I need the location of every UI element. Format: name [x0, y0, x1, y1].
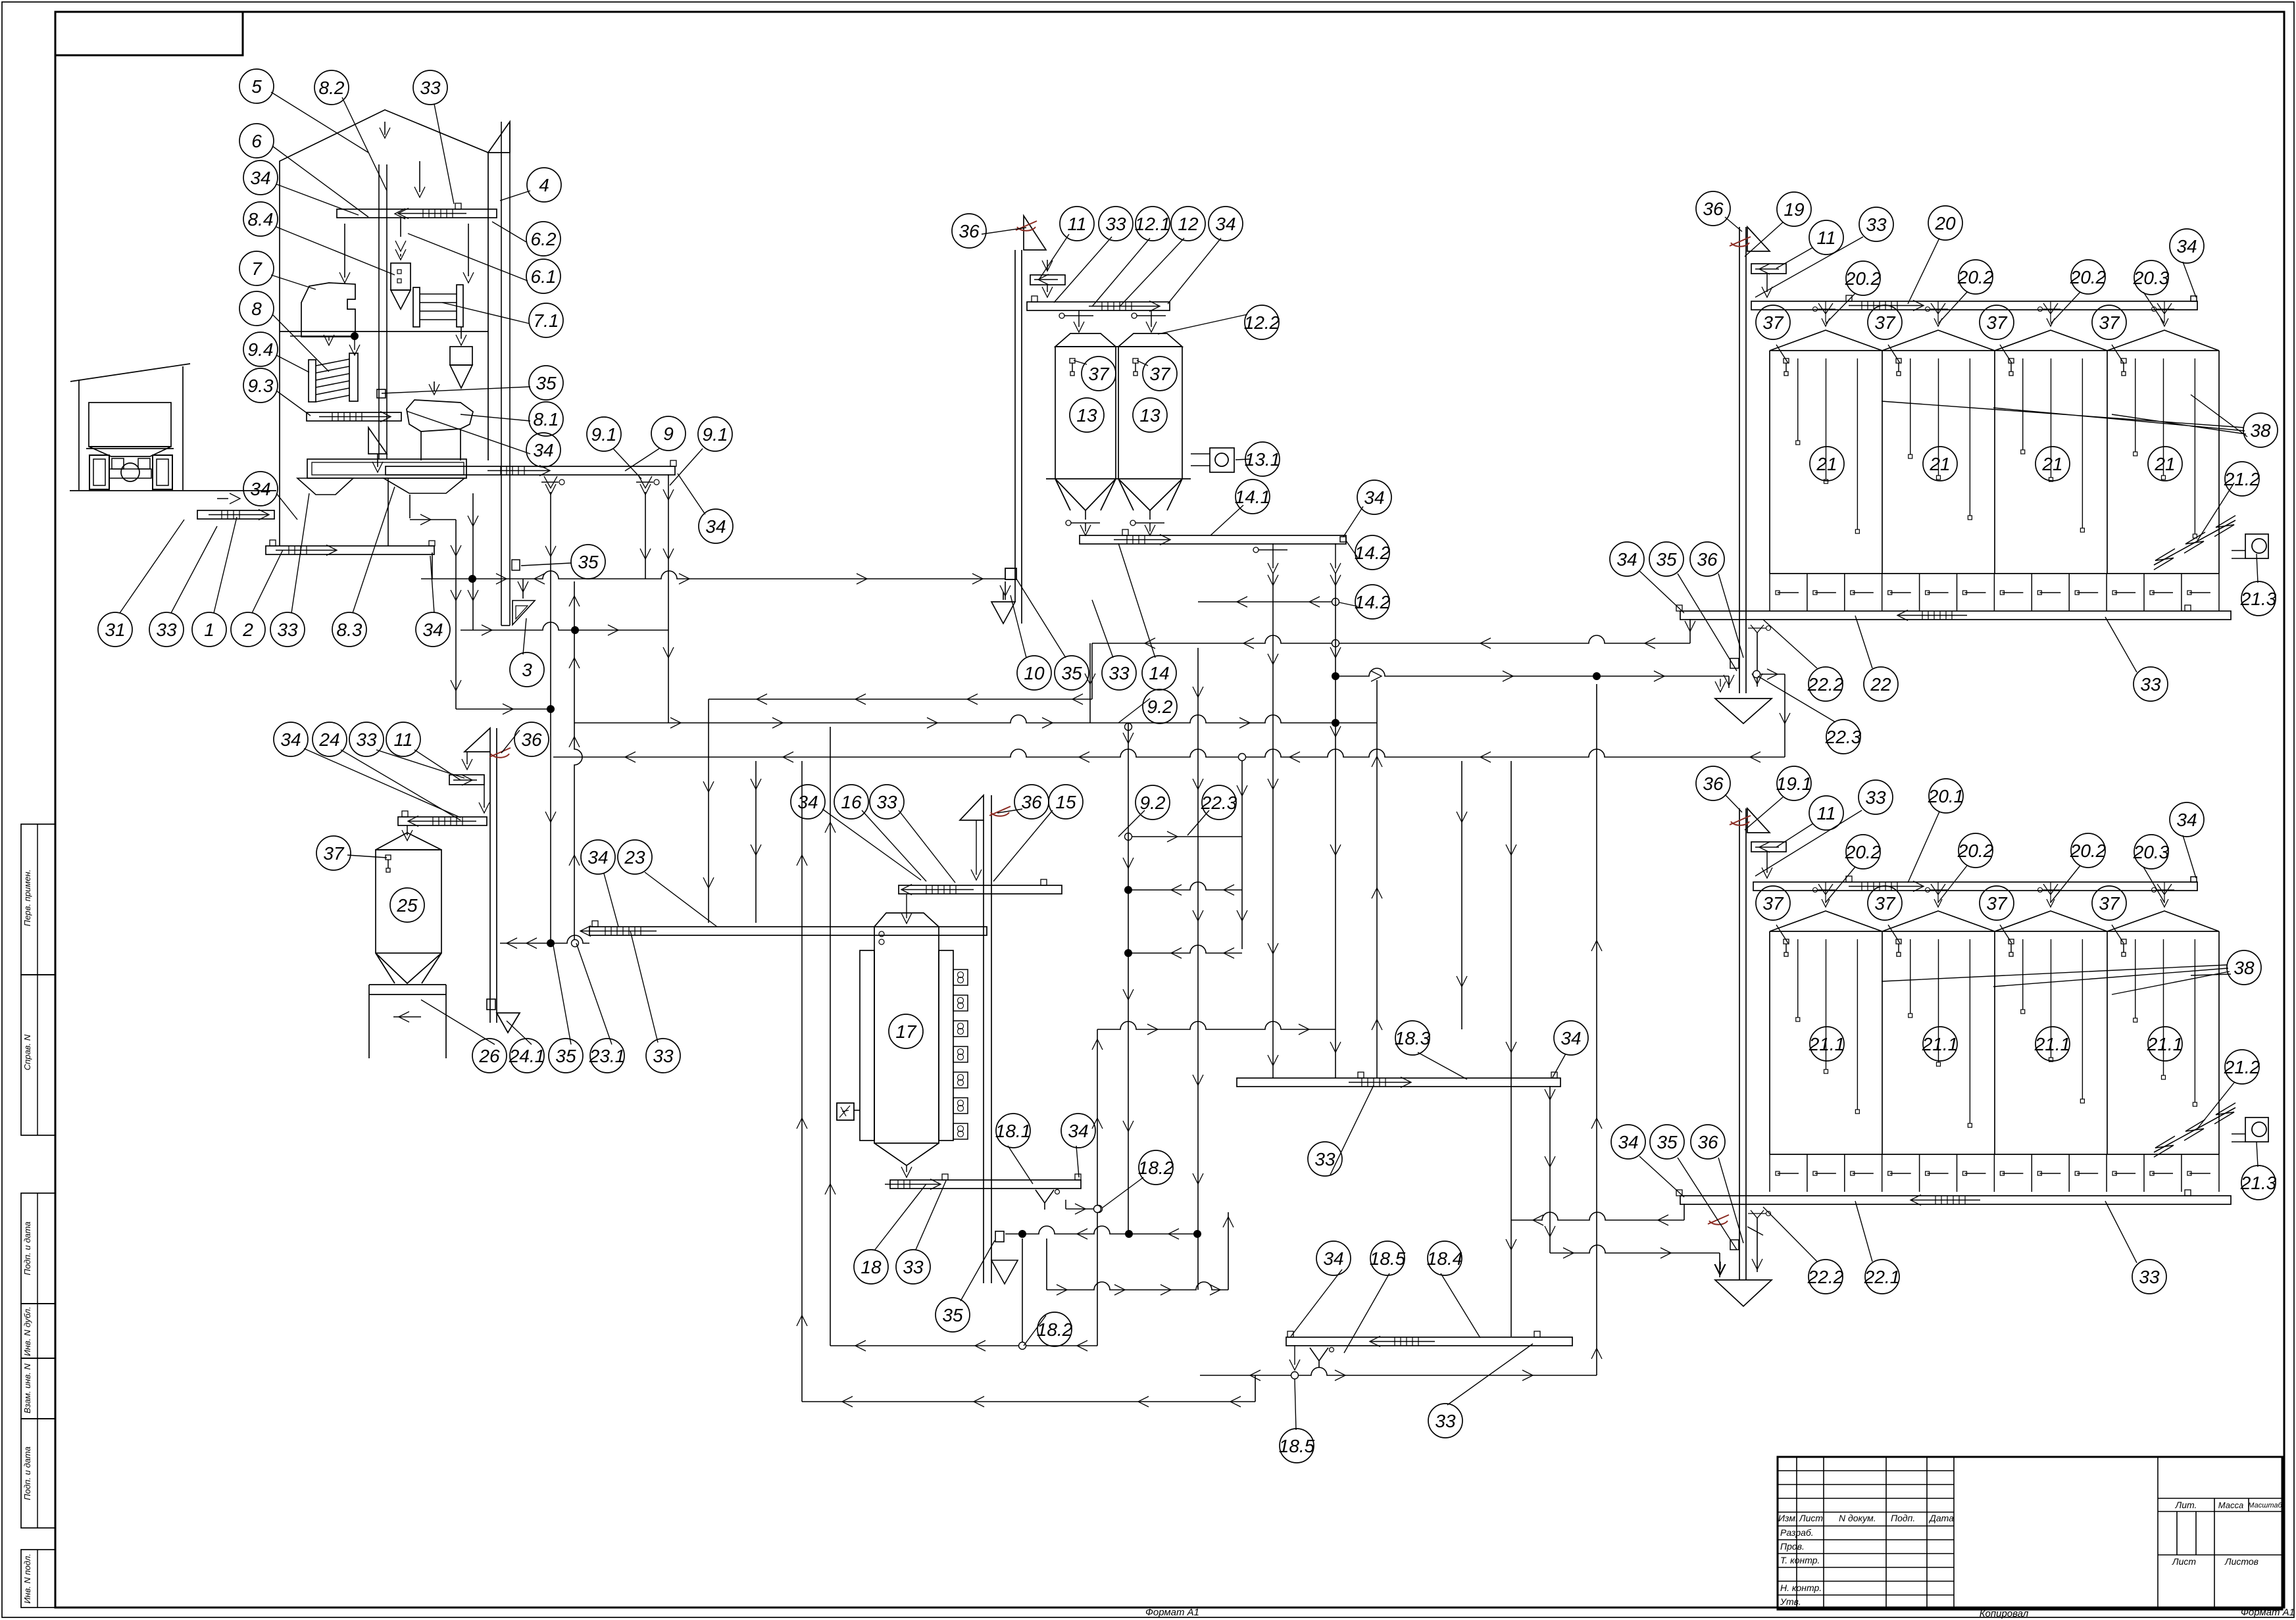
node balloon 36	[1696, 766, 1730, 800]
wire	[1596, 684, 1597, 1375]
svg-text:Утв.: Утв.	[1780, 1596, 1801, 1607]
building head flag	[488, 122, 510, 153]
svg-text:21.3: 21.3	[2240, 589, 2277, 609]
node balloon 33	[1859, 780, 1893, 814]
silo 13 left roof	[1055, 333, 1116, 347]
svg-text:33: 33	[1865, 787, 1886, 808]
svg-text:33: 33	[903, 1257, 924, 1277]
valve under conveyor 18.4	[1310, 1348, 1328, 1367]
leader lines 18 group	[875, 1184, 926, 1250]
flap valve mark	[489, 748, 511, 757]
spouts conveyor 20.1 to bins	[1818, 889, 1835, 891]
node balloon 21	[2148, 447, 2182, 481]
node balloon 9.1	[698, 417, 732, 451]
title block frame	[1778, 1457, 2282, 1609]
svg-text:20.2: 20.2	[1845, 842, 1882, 862]
elevator 19.1 discharge funnel	[1715, 1280, 1772, 1306]
truck shed roof	[70, 364, 190, 381]
node balloon 37	[1980, 305, 2014, 339]
svg-text:21: 21	[1929, 454, 1950, 474]
warehouse bin walls	[1769, 931, 1770, 1154]
node balloon 7	[239, 251, 274, 285]
wire	[830, 727, 831, 1346]
wire	[668, 474, 669, 723]
wire	[1757, 633, 1758, 687]
svg-text:Листов: Листов	[2224, 1556, 2259, 1567]
wire	[802, 1401, 1255, 1402]
level sensor	[1133, 358, 1138, 363]
wire from junction to drop	[1760, 674, 1785, 675]
node balloon 37	[1756, 886, 1790, 920]
svg-text:22.2: 22.2	[1807, 674, 1844, 695]
svg-text:Подп. и дата: Подп. и дата	[22, 1446, 32, 1500]
svg-text:13: 13	[1139, 405, 1160, 426]
wire	[1132, 836, 1242, 837]
dryer motor box	[837, 1103, 854, 1120]
node balloon 18.3	[1395, 1021, 1430, 1055]
svg-text:9.3: 9.3	[248, 376, 274, 396]
svg-text:20.2: 20.2	[2070, 267, 2107, 287]
silo 25 stand	[368, 985, 370, 1058]
wire	[1511, 1212, 1684, 1220]
elevator 19.1 head flag	[1747, 808, 1770, 833]
svg-text:34: 34	[1364, 487, 1384, 508]
wire	[1241, 761, 1243, 949]
wire	[1089, 643, 1091, 723]
svg-text:Перв. примен.: Перв. примен.	[22, 870, 32, 926]
node balloon 35	[1055, 656, 1089, 690]
node balloon 23	[618, 840, 652, 874]
conveyor belt	[307, 412, 401, 421]
node balloon 22.1	[1865, 1260, 1899, 1294]
node balloon 14.2	[1355, 585, 1389, 619]
node balloon 21.1	[2035, 1027, 2070, 1061]
node balloon 37	[1756, 305, 1790, 339]
node balloon 8.4	[243, 202, 278, 236]
node balloon 20.2	[1959, 260, 1993, 294]
truck wheel right	[153, 455, 172, 489]
elevator 10 head flag	[1024, 216, 1046, 250]
discharge gate row	[1769, 574, 1770, 611]
silo 13 right roof	[1118, 333, 1182, 347]
svg-text:3: 3	[522, 660, 532, 680]
wire	[1200, 1367, 1597, 1375]
dryer 17 side panel left	[860, 950, 874, 1141]
wire	[574, 581, 582, 939]
magnet 11 box upper warehouse	[1751, 264, 1786, 274]
node balloon 35	[1649, 542, 1684, 576]
node balloon 33	[349, 722, 384, 756]
node balloon 4	[527, 168, 561, 202]
silo discharge valves	[1085, 510, 1086, 520]
node balloon 9.2	[1143, 689, 1177, 724]
svg-text:14.2: 14.2	[1355, 543, 1391, 563]
svg-text:7.1: 7.1	[534, 310, 559, 331]
svg-text:Справ. N: Справ. N	[22, 1034, 32, 1070]
probe leader lines to balloon 38 upper	[1882, 395, 2247, 437]
conveyor belt	[1751, 301, 2197, 310]
node balloon 21.1	[1923, 1027, 1957, 1061]
node balloon 12.2	[1245, 305, 1279, 339]
elevator 23 discharge	[497, 1013, 520, 1033]
svg-text:Дата: Дата	[1928, 1513, 1954, 1523]
svg-text:13: 13	[1076, 405, 1097, 426]
node balloon 33	[413, 70, 447, 105]
node balloon 20.3	[2134, 260, 2168, 295]
svg-text:Масса: Масса	[2218, 1500, 2243, 1510]
conveyor belt	[266, 546, 434, 554]
node balloon 21.2	[2225, 1050, 2259, 1084]
node balloon 11	[1060, 207, 1094, 241]
silo 25 cone top	[376, 833, 441, 850]
title block columns	[1796, 1457, 1797, 1609]
svg-text:34: 34	[1616, 549, 1637, 570]
node balloon 33	[270, 612, 305, 647]
building right elevator duct	[501, 122, 502, 626]
node balloon 35	[549, 1039, 583, 1073]
node balloon 34	[1610, 542, 1644, 576]
svg-text:33: 33	[1866, 214, 1887, 235]
node balloon 20.1	[1929, 779, 1963, 813]
level sensor	[1896, 358, 1901, 363]
discharge spouts under conveyor 9	[541, 481, 559, 483]
node balloon 34	[791, 785, 825, 819]
leader lines silos 13 group	[982, 228, 1026, 234]
wire	[500, 935, 589, 943]
wire	[1097, 1213, 1098, 1346]
svg-text:35: 35	[555, 1046, 576, 1066]
svg-text:8.1: 8.1	[534, 409, 559, 430]
node balloon 34	[699, 509, 733, 543]
svg-text:33: 33	[1314, 1149, 1335, 1169]
svg-text:Формат А1: Формат А1	[2241, 1607, 2295, 1618]
warehouse roof zigzag	[1770, 330, 2219, 351]
svg-text:34: 34	[2176, 236, 2197, 257]
node balloon 37	[1980, 886, 2014, 920]
node balloon 22.3	[1826, 720, 1860, 754]
node balloon 14.1	[1235, 479, 1270, 514]
wire	[1549, 1086, 1551, 1253]
silo 25 feed	[402, 830, 412, 841]
margin box Perv. primen.	[21, 824, 55, 975]
node balloon 21	[1923, 447, 1957, 481]
svg-text:23.1: 23.1	[589, 1046, 626, 1066]
conveyor belt	[197, 510, 274, 519]
svg-text:33: 33	[1109, 663, 1130, 683]
svg-text:Разраб.: Разраб.	[1780, 1527, 1814, 1538]
truck hopper	[89, 447, 171, 456]
silo feed spouts from conveyor 12	[1074, 322, 1084, 332]
node balloon 36	[1696, 191, 1730, 226]
wire	[461, 622, 668, 630]
node balloon 18.5	[1370, 1241, 1405, 1275]
node balloon 12.1	[1136, 207, 1170, 241]
conveyor belt	[1680, 1196, 2231, 1204]
node balloon 12	[1171, 207, 1205, 241]
node balloon 20	[1928, 206, 1962, 240]
wire	[1510, 761, 1512, 1337]
spout under conveyor 22	[1751, 625, 1764, 633]
svg-text:37: 37	[1986, 312, 2008, 333]
node balloon 31	[98, 612, 132, 647]
conveyor belt	[1680, 611, 2231, 620]
node balloon 24	[312, 722, 347, 756]
junction near elevator 19	[1753, 671, 1760, 678]
valve marks near 19.1 boot	[1747, 1227, 1763, 1235]
elevator 19.1 leg	[1739, 808, 1740, 1280]
svg-text:21.2: 21.2	[2224, 469, 2260, 489]
leader lines bottom row building	[120, 520, 184, 613]
node balloon 37	[1868, 886, 1902, 920]
svg-text:36: 36	[1703, 773, 1724, 794]
screw conveyor symbol	[2154, 520, 2235, 565]
conveyor belt	[398, 817, 487, 825]
svg-text:21.2: 21.2	[2224, 1057, 2260, 1077]
node balloon 22.3	[1202, 785, 1236, 820]
svg-text:24.1: 24.1	[509, 1046, 545, 1066]
svg-text:33: 33	[1435, 1411, 1456, 1431]
node balloon 20.2	[1959, 833, 1993, 868]
node balloon 14.2	[1355, 535, 1389, 570]
node balloon 16	[834, 785, 868, 819]
node balloon 20.2	[2071, 833, 2105, 868]
svg-text:33: 33	[356, 729, 377, 750]
wire	[1784, 674, 1785, 757]
silo hopper right	[1118, 479, 1182, 510]
node balloon 10	[1017, 656, 1051, 690]
node balloon 15	[1049, 785, 1083, 819]
node balloon 21.3	[2241, 1166, 2276, 1200]
elevator 19 discharge funnel	[1715, 699, 1772, 724]
node balloon 6	[239, 124, 274, 158]
wire	[1022, 1239, 1023, 1342]
downpipe from conveyor 6.2	[400, 218, 401, 237]
svg-text:6.2: 6.2	[531, 229, 557, 249]
svg-text:34: 34	[705, 516, 726, 537]
node balloon 34	[2170, 229, 2204, 263]
level sensor	[2121, 358, 2126, 363]
spouts under conveyor 14	[1259, 549, 1287, 551]
wire	[1339, 668, 1729, 676]
level sensor	[1784, 358, 1789, 363]
margin box Vzam. inv. N	[21, 1358, 55, 1419]
flap valve mark	[1708, 1215, 1729, 1224]
warehouse bottom line	[1770, 573, 2219, 574]
node balloon 24.1	[510, 1039, 544, 1073]
svg-text:21.1: 21.1	[2147, 1034, 2184, 1054]
svg-text:Инв. N дубл.: Инв. N дубл.	[22, 1306, 32, 1356]
magnet 11 box lower warehouse	[1751, 842, 1786, 852]
svg-text:Взам. инв. N: Взам. инв. N	[22, 1363, 32, 1413]
node balloon 22	[1864, 667, 1898, 701]
node balloon 9.2	[1136, 785, 1170, 820]
svg-text:18.5: 18.5	[1370, 1248, 1406, 1269]
wire	[1128, 723, 1129, 1234]
flap valve mark	[1730, 816, 1751, 825]
node balloon 21	[1810, 447, 1844, 481]
node balloon 34	[416, 612, 450, 647]
wire	[550, 492, 551, 943]
svg-text:34: 34	[1323, 1248, 1343, 1269]
svg-text:33: 33	[277, 620, 298, 640]
svg-text:33: 33	[420, 78, 441, 98]
svg-text:37: 37	[2099, 893, 2120, 914]
svg-text:36: 36	[1697, 549, 1718, 570]
node balloon 38	[2243, 413, 2278, 447]
wire	[1128, 945, 1242, 953]
elevator 19 leg	[1739, 227, 1740, 693]
node balloon 11	[1809, 796, 1843, 830]
junctions under conveyor 23	[547, 940, 555, 947]
node balloon 34	[1061, 1114, 1095, 1148]
node balloon 9	[651, 416, 686, 451]
node balloon 13	[1070, 398, 1104, 432]
node balloon 36	[952, 214, 986, 248]
node balloon 6.1	[526, 259, 561, 293]
svg-text:37: 37	[1986, 893, 2008, 914]
level sensor	[1070, 358, 1075, 363]
node balloon 34	[526, 433, 561, 467]
wire	[1272, 574, 1274, 1078]
svg-text:Лист: Лист	[2172, 1556, 2196, 1567]
wire	[574, 715, 1377, 723]
svg-text:11: 11	[1816, 228, 1835, 248]
node balloon 35	[936, 1298, 970, 1332]
wire	[801, 761, 803, 1402]
svg-text:33: 33	[156, 620, 177, 640]
svg-text:9.2: 9.2	[1140, 793, 1166, 813]
svg-text:33: 33	[653, 1046, 674, 1066]
node balloon 8	[239, 291, 274, 326]
feed arrow to conveyor 24	[479, 802, 489, 813]
wire	[1046, 1239, 1047, 1290]
svg-text:36: 36	[521, 729, 542, 750]
cyclone under 7.1	[450, 347, 472, 365]
node balloon 33	[2132, 1260, 2166, 1294]
node balloon 6.2	[526, 222, 561, 256]
scale hopper 7 body	[301, 283, 355, 337]
leader lines silo 25 group	[304, 749, 461, 818]
top-left reference table	[55, 12, 243, 55]
node balloon 34	[274, 722, 308, 756]
feed arrows under roof	[380, 128, 390, 138]
building pit hopper right	[384, 478, 464, 493]
svg-text:21: 21	[2154, 454, 2175, 474]
node balloon 33	[896, 1250, 930, 1284]
fan unit	[2245, 534, 2268, 558]
silo hopper left	[1055, 479, 1116, 510]
wire	[830, 1345, 1097, 1346]
svg-text:19: 19	[1784, 199, 1804, 220]
svg-text:Подп. и дата: Подп. и дата	[22, 1221, 32, 1275]
node balloon 23.1	[590, 1039, 624, 1073]
svg-text:37: 37	[1149, 364, 1171, 384]
svg-text:9.1: 9.1	[591, 424, 617, 445]
margin box Inv. N dubl.	[21, 1304, 55, 1358]
node balloon 8.1	[529, 402, 563, 436]
svg-text:Пров.: Пров.	[1780, 1541, 1805, 1552]
svg-text:20.1: 20.1	[1928, 786, 1964, 806]
node balloon 34	[1554, 1021, 1588, 1055]
screw conveyor symbol	[2154, 1108, 2235, 1152]
wire	[455, 520, 457, 709]
wire	[472, 493, 474, 630]
node balloon 22.2	[1809, 1260, 1843, 1294]
node balloon 17	[889, 1014, 923, 1048]
svg-text:1: 1	[204, 620, 214, 640]
node balloon 35	[1650, 1125, 1684, 1159]
node balloon 21.1	[2148, 1027, 2182, 1061]
svg-text:19.1: 19.1	[1776, 773, 1812, 794]
warehouse bin walls	[1769, 351, 1770, 574]
svg-text:38: 38	[2250, 420, 2271, 441]
conveyor belt	[890, 1180, 1081, 1189]
svg-text:12: 12	[1178, 214, 1199, 234]
node balloon 21.1	[1810, 1027, 1844, 1061]
level sensor	[1784, 939, 1789, 944]
node balloon 37	[2092, 886, 2126, 920]
node balloon 37	[316, 836, 351, 870]
node balloon 18.4	[1428, 1241, 1462, 1275]
svg-text:33: 33	[2139, 1267, 2160, 1287]
svg-text:22.3: 22.3	[1825, 727, 1862, 747]
svg-text:8.3: 8.3	[337, 620, 362, 640]
svg-text:22: 22	[1870, 674, 1891, 695]
svg-text:34: 34	[1560, 1028, 1581, 1048]
svg-text:37: 37	[1088, 364, 1110, 384]
svg-text:34: 34	[533, 440, 553, 460]
svg-text:20.2: 20.2	[2070, 841, 2107, 861]
leader lines center 10-14	[1011, 595, 1026, 658]
svg-text:37: 37	[323, 843, 345, 864]
margin box Podp. i data 1	[21, 1193, 55, 1304]
level sensor	[2121, 939, 2126, 944]
feed arrow into dryer	[901, 913, 912, 923]
node balloon 33	[2134, 667, 2168, 701]
fan unit	[2245, 1117, 2268, 1142]
temperature probes	[1797, 939, 1799, 1018]
leader lines upper warehouse	[1725, 217, 1742, 232]
conveyor belt	[1080, 535, 1346, 544]
svg-text:Инв. N подл.: Инв. N подл.	[22, 1554, 32, 1604]
wire	[1005, 581, 1006, 600]
sensor square 35 on duct	[512, 560, 520, 570]
title block right part lines	[2158, 1498, 2282, 1499]
node balloon 34	[1357, 480, 1391, 514]
svg-text:21: 21	[2041, 454, 2062, 474]
svg-text:14.2: 14.2	[1355, 592, 1391, 612]
elevator discharge arrowhead	[991, 592, 1015, 624]
silo bottoms line	[1046, 478, 1191, 479]
node balloon 8.2	[314, 70, 349, 105]
rotary feeder 13.1	[1210, 448, 1234, 472]
svg-text:8: 8	[251, 299, 262, 319]
svg-text:33: 33	[1105, 214, 1126, 234]
node balloon 21.3	[2241, 581, 2276, 616]
dryer 17 burner boxes	[953, 970, 968, 985]
wire	[1091, 643, 1093, 699]
node balloon 20.2	[1846, 835, 1880, 869]
discharge gate row	[1769, 1154, 1770, 1192]
silo 13 left body	[1055, 347, 1056, 479]
small sensor square 35	[377, 389, 386, 398]
wire	[1005, 1226, 1197, 1234]
wire	[432, 552, 433, 579]
svg-text:35: 35	[578, 552, 599, 572]
svg-text:18.2: 18.2	[1138, 1158, 1174, 1178]
svg-text:26: 26	[478, 1046, 500, 1066]
wire	[1335, 574, 1336, 1078]
